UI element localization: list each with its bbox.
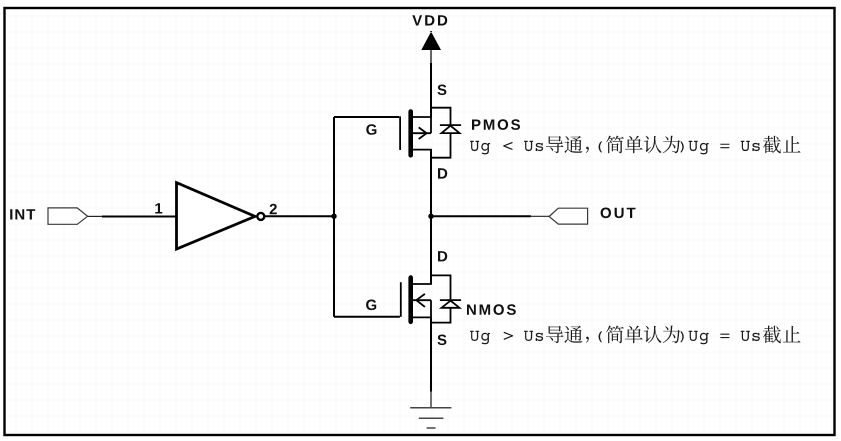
label S NMOS source (437, 335, 446, 346)
wire: VDD to PMOS source (430, 63, 432, 117)
pin number 2 (270, 204, 277, 215)
NMOS channel bar (408, 278, 413, 322)
wire: bus to PMOS gate (334, 116, 399, 118)
NMOS body-diode cathode bar (440, 299, 461, 301)
PMOS source horizontal (413, 116, 432, 118)
junction at output node (428, 214, 433, 219)
NMOS bulk-to-source vertical (430, 300, 432, 317)
junction at gate bus (331, 214, 336, 219)
label VDD (412, 15, 447, 25)
wire: INT port to inverter input (88, 215, 103, 217)
PMOS bulk-to-source vertical (430, 117, 432, 133)
PMOS drain horizontal (413, 149, 432, 151)
label D NMOS drain (438, 251, 447, 261)
PMOS channel bar (408, 112, 413, 156)
inverter output bubble (257, 213, 264, 220)
PMOS body-diode branch top (431, 108, 451, 125)
PMOS bulk line (413, 132, 431, 134)
PMOS condition note (Chinese annotation line 1) (470, 136, 801, 155)
wire: PMOS drain to output node to NMOS drain (430, 150, 432, 284)
PMOS body-diode cathode bar (440, 124, 461, 126)
label S PMOS source (437, 85, 446, 96)
label OUT (601, 208, 636, 219)
PMOS body-diode triangle (442, 126, 460, 133)
label PMOS (472, 119, 520, 130)
label G of NMOS gate (366, 300, 376, 311)
inverter U1 triangle (177, 183, 256, 249)
NMOS body-diode branch top (431, 275, 451, 300)
PMOS body-diode branch bottom (431, 133, 451, 158)
label G of PMOS gate (366, 124, 376, 135)
PMOS arrow head (419, 127, 428, 139)
transistor Q1 PMOS (400, 108, 461, 158)
NMOS bulk line (413, 299, 431, 301)
PMOS gate plate (399, 116, 401, 150)
label INT (10, 209, 35, 219)
power port VDD arrow (421, 31, 441, 50)
NMOS gate plate (400, 282, 402, 317)
label D PMOS drain (438, 168, 447, 178)
transistor Q2 NMOS (401, 275, 461, 322)
NMOS drain horizontal (413, 283, 432, 285)
NMOS body-diode branch bottom (431, 308, 451, 323)
ground symbol (410, 408, 451, 428)
gate bus vertical wire (333, 117, 335, 317)
port OUT (549, 208, 588, 224)
NMOS body-diode triangle (442, 301, 460, 308)
NMOS source horizontal (413, 316, 432, 318)
NMOS condition note (Chinese annotation line 2) (470, 326, 801, 345)
wire: output node to OUT port (431, 215, 531, 217)
wire: bus to NMOS gate (334, 316, 400, 318)
wire: NMOS source to ground (430, 317, 432, 391)
pin number 1 (155, 203, 162, 213)
wire: bubble to gate bus (264, 215, 334, 217)
NMOS arrow head (416, 294, 425, 307)
label NMOS (467, 304, 516, 315)
port INT (48, 208, 88, 224)
